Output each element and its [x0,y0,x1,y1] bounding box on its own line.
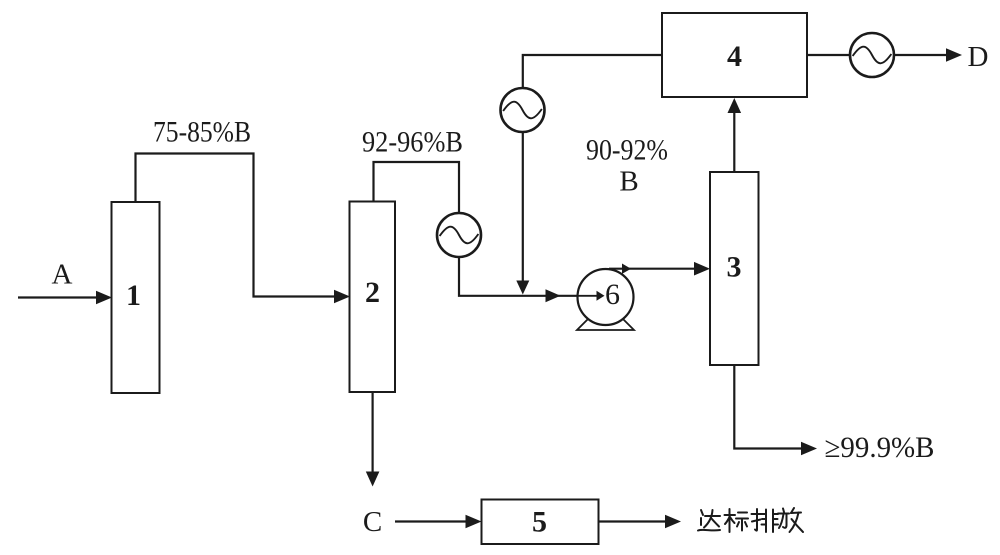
svg-text:6: 6 [605,278,620,311]
svg-text:90-92%: 90-92% [586,135,668,167]
svg-text:5: 5 [532,506,547,539]
svg-text:C: C [363,506,382,538]
svg-text:1: 1 [126,279,141,312]
svg-text:B: B [619,166,638,198]
svg-text:A: A [52,259,73,291]
svg-text:2: 2 [365,276,380,309]
svg-text:≥99.9%B: ≥99.9%B [825,432,935,464]
svg-text:75-85%B: 75-85%B [153,117,251,149]
svg-text:4: 4 [727,40,742,73]
svg-text:92-96%B: 92-96%B [362,127,463,159]
svg-text:D: D [968,41,989,73]
svg-text:3: 3 [727,251,742,284]
